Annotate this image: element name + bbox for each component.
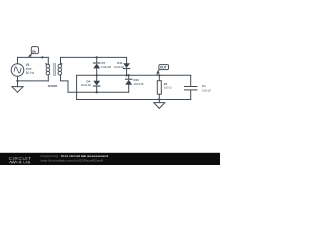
- svg-text:1N4148: 1N4148: [101, 65, 112, 69]
- node dot on primary wire: [41, 56, 43, 58]
- transformer XFMR1: [45, 57, 62, 81]
- resistor R1: [157, 75, 161, 99]
- svg-text:50 Hz: 50 Hz: [26, 71, 35, 75]
- voltage source V1: [11, 57, 24, 86]
- wire secondary bottom to lower mid rail: [61, 81, 69, 92]
- capacitor C1: [184, 75, 197, 99]
- diode D11: [123, 57, 130, 75]
- svg-text:XFMR1: XFMR1: [48, 84, 58, 88]
- R1 labels: [164, 82, 173, 90]
- CircuitLab logo wordmark: [9, 156, 32, 165]
- ammeter probe: [27, 47, 38, 58]
- diode D4: [93, 75, 100, 92]
- wire top-left (V1 top to primary): [18, 56, 49, 58]
- diode D10: [125, 75, 132, 92]
- node R1 top: [158, 74, 160, 76]
- svg-text:imgsoming : first circuit lab: imgsoming : first circuit lab assessment: [41, 154, 109, 158]
- diode D7: [93, 57, 100, 75]
- ground (under R1): [154, 100, 165, 109]
- ground (under V1): [12, 87, 23, 93]
- D11 labels: [114, 61, 125, 69]
- svg-text:100 Ω: 100 Ω: [164, 86, 173, 90]
- C1 labels: [202, 84, 211, 93]
- D7 labels: [101, 61, 112, 69]
- mid out rail: [77, 74, 191, 76]
- node D10 top: [128, 74, 130, 76]
- node top rail / D7: [96, 56, 98, 58]
- node D4 cathode: [96, 91, 98, 93]
- node R1 bottom: [158, 98, 160, 100]
- svg-text:C1: C1: [202, 84, 206, 88]
- junction V1 bottom: [16, 80, 18, 82]
- wire secondary top rail: [61, 56, 127, 58]
- svg-text:1N4148: 1N4148: [114, 65, 125, 69]
- svg-text:1N4148: 1N4148: [81, 83, 92, 87]
- svg-text:OUT: OUT: [160, 66, 167, 70]
- V1 value labels: [26, 63, 35, 75]
- wire mid rail left drop: [76, 75, 78, 99]
- wire primary bottom return: [18, 80, 49, 82]
- D10 labels: [133, 78, 144, 86]
- svg-text:LAB: LAB: [23, 161, 31, 165]
- svg-text:100 µF: 100 µF: [202, 88, 211, 92]
- lower mid wire: [68, 91, 129, 93]
- OUT probe: [156, 65, 169, 76]
- D4 labels: [81, 80, 92, 88]
- node D7 anode: [96, 74, 98, 76]
- node D11 bottom: [125, 74, 127, 76]
- footer bar: [0, 153, 220, 165]
- svg-text:http://circuitlab.com/c/y52f5s: http://circuitlab.com/c/y52f5syd62az8: [41, 158, 104, 162]
- bottom rail: [77, 99, 191, 101]
- svg-text:1N4148: 1N4148: [133, 82, 144, 86]
